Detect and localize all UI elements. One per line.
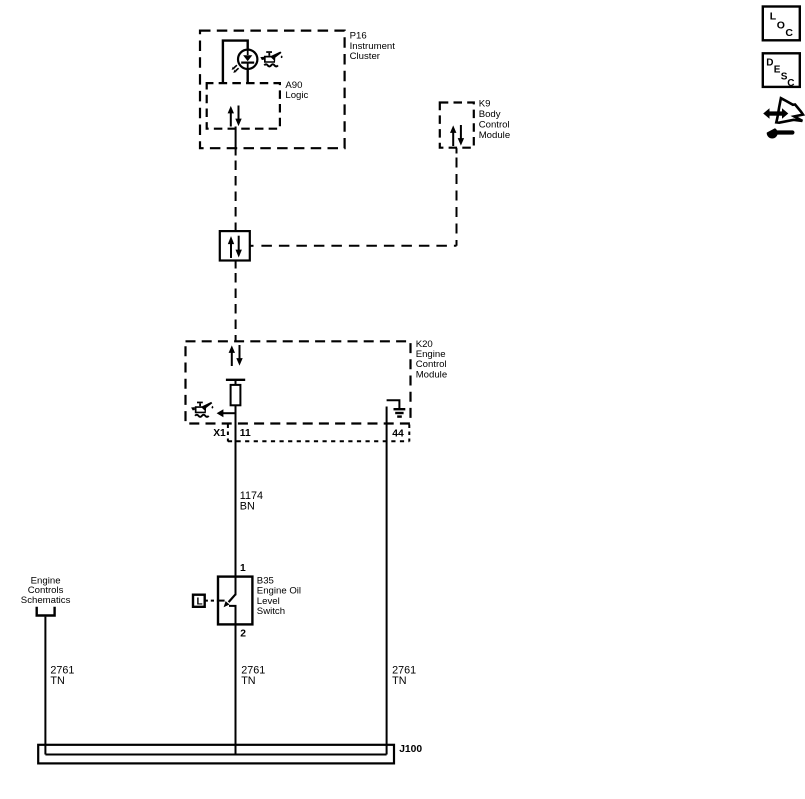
wire 2761 TN middle (B35 pin 2 to G) <box>235 625 237 755</box>
icon double arrow <box>763 108 788 118</box>
logic box A90 <box>207 83 280 129</box>
oil level icon (K20) <box>191 402 213 417</box>
icon repair outline shape <box>776 98 803 123</box>
svg-text:C: C <box>785 27 793 39</box>
svg-text:2: 2 <box>240 629 246 640</box>
svg-text:TN: TN <box>392 675 406 687</box>
ground bus inner bar <box>45 754 386 756</box>
wire bar to resistor <box>235 380 237 385</box>
switch fixed contact <box>229 606 236 625</box>
indicator LED circle <box>238 50 257 69</box>
icon DESC letters <box>766 57 794 88</box>
connector band X1 left edge <box>227 425 229 442</box>
svg-text:Cluster: Cluster <box>350 51 381 62</box>
wire connector to K9 (serial data) <box>250 245 254 247</box>
label P16 Instrument Cluster <box>350 31 396 62</box>
svg-text:Module: Module <box>479 130 510 141</box>
wire 2761 TN right (ground to bus) <box>386 407 388 755</box>
inline serial data connector box <box>220 231 250 260</box>
svg-text:C: C <box>787 78 794 89</box>
wire 2761 TN left <box>44 617 46 755</box>
svg-text:K9: K9 <box>479 98 491 109</box>
serial data arrows K20 <box>229 345 243 366</box>
indicator lamp frame <box>223 41 248 84</box>
wire connector to K20 (serial data) <box>235 261 237 269</box>
svg-text:Control: Control <box>479 120 510 131</box>
svg-text:Logic: Logic <box>285 90 308 101</box>
svg-text:BN: BN <box>240 500 255 512</box>
internal ground hook K20 <box>387 400 400 409</box>
actuating link stub <box>218 600 225 602</box>
serial data arrows A90 <box>228 106 242 127</box>
ground symbol <box>394 409 406 416</box>
wire 1174 BN resistor to B35 <box>235 405 237 595</box>
label 2761 TN middle <box>241 664 265 686</box>
svg-text:Switch: Switch <box>257 606 285 617</box>
LED arrow and bar <box>241 50 254 70</box>
svg-text:Module: Module <box>416 369 447 380</box>
label K9 Body Control Module <box>479 98 510 141</box>
svg-text:1: 1 <box>240 563 246 574</box>
actuating link dashes <box>205 600 218 602</box>
switch lever with arrowhead <box>224 594 236 607</box>
svg-text:L: L <box>197 597 203 608</box>
svg-text:X1: X1 <box>213 428 226 439</box>
K20 Engine Control Module box <box>186 341 411 423</box>
label A90 Logic <box>285 80 308 101</box>
svg-text:11: 11 <box>240 428 251 439</box>
icon LOC box <box>763 7 800 41</box>
icon LOC letters <box>770 10 794 38</box>
svg-text:TN: TN <box>241 675 255 687</box>
connector band X1 bottom edge <box>228 440 409 442</box>
label B35 Engine Oil Level Switch <box>257 575 301 617</box>
switch box B35 <box>218 577 252 625</box>
icon wrench <box>764 126 795 139</box>
LED emission arrows <box>232 65 239 73</box>
resistor <box>231 385 241 405</box>
connector box P16 Instrument Cluster <box>200 31 345 149</box>
svg-text:E: E <box>774 64 781 75</box>
label 1174 BN <box>240 490 263 512</box>
K9 Body Control Module box <box>440 103 474 148</box>
icon DESC box <box>763 53 800 87</box>
level sensor box L <box>193 595 205 607</box>
serial data arrows K9 <box>450 125 464 146</box>
svg-text:Body: Body <box>479 109 501 120</box>
off-page reference bracket <box>37 607 55 616</box>
label K20 Engine Control Module <box>416 339 447 380</box>
svg-text:L: L <box>770 10 777 22</box>
signal arrow to oil level icon <box>217 409 237 417</box>
serial data arrows connector <box>228 236 242 258</box>
label 2761 TN left <box>50 664 74 686</box>
wire A90 to inline connector (serial data) <box>235 127 237 156</box>
svg-text:D: D <box>766 57 773 68</box>
svg-text:TN: TN <box>50 675 64 687</box>
svg-text:44: 44 <box>392 428 404 439</box>
label 2761 TN right <box>392 664 416 686</box>
svg-text:O: O <box>777 19 785 31</box>
svg-text:Schematics: Schematics <box>21 595 71 606</box>
oil pressure telltale icon (cluster) <box>260 51 282 66</box>
svg-text:J100: J100 <box>399 744 422 755</box>
label Engine Controls Schematics <box>21 575 71 606</box>
pull-up voltage bar <box>226 379 245 381</box>
connector band X1 right edge <box>408 425 410 442</box>
ground bus J100 outer <box>38 745 394 764</box>
